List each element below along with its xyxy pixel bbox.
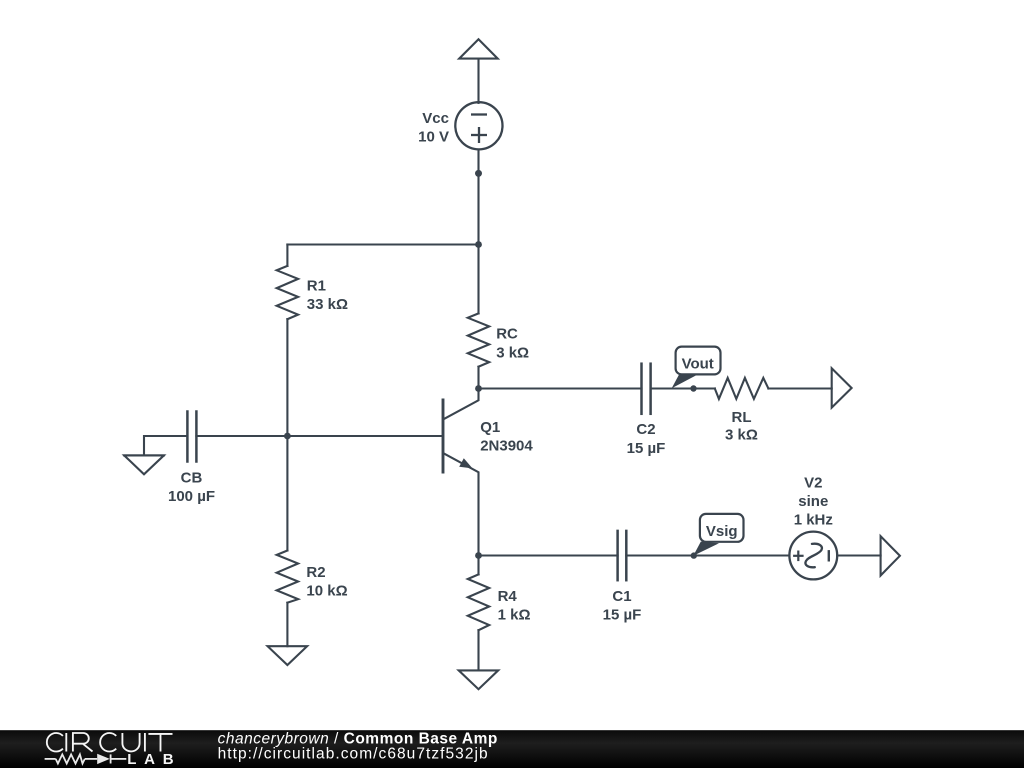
label R4 1 k (498, 588, 531, 623)
node dot Vout (690, 385, 696, 391)
svg-text:15 µF: 15 µF (627, 440, 666, 457)
wire base row (196, 435, 443, 437)
ground R2 (268, 646, 308, 665)
wire CB to ground (144, 436, 187, 455)
svg-text:100 µF: 100 µF (168, 488, 215, 505)
capacitor C1 (618, 531, 627, 580)
resistor R4 (468, 556, 489, 671)
ground CB (124, 455, 164, 474)
transistor Q1 (443, 389, 479, 556)
svg-text:10 kΩ: 10 kΩ (306, 582, 347, 599)
svg-text:33 kΩ: 33 kΩ (307, 296, 348, 313)
svg-text:Q1: Q1 (480, 419, 500, 436)
svg-text:1 kHz: 1 kHz (794, 512, 833, 529)
output port triangle Vout (832, 368, 852, 407)
wire after C1 (626, 554, 789, 556)
ground R4 (459, 670, 499, 689)
svg-text:http://circuitlab.com/c68u7tzf: http://circuitlab.com/c68u7tzf532jb (218, 745, 489, 762)
svg-text:RC: RC (496, 325, 518, 342)
svg-text:3 kΩ: 3 kΩ (725, 426, 758, 443)
junction collector node (475, 385, 482, 392)
logo CIRCUIT (47, 733, 173, 752)
voltage source V2 sine (789, 532, 837, 580)
output port triangle Vsig (881, 536, 900, 575)
footer center text (218, 731, 498, 763)
label R2 10 k (306, 564, 347, 599)
svg-text:1 kΩ: 1 kΩ (498, 606, 531, 623)
junction emitter node (475, 552, 482, 559)
label C1 15 uF (603, 588, 642, 623)
svg-text:Vcc: Vcc (422, 110, 449, 127)
wire Vcc to rail (477, 150, 479, 245)
label C2 15 uF (627, 421, 666, 457)
label R1 33 k (307, 278, 348, 313)
junction base node (284, 433, 291, 440)
node dot Vcc net (475, 170, 482, 177)
resistor R2 (277, 436, 298, 646)
svg-text:CB: CB (181, 470, 203, 487)
logo mini schematic (45, 754, 127, 764)
svg-text:Vout: Vout (682, 355, 714, 372)
flag Vout (672, 347, 721, 389)
label Vcc 10 V (418, 110, 449, 146)
resistor R1 (277, 245, 298, 437)
wire collector row (479, 387, 642, 389)
resistor RC (468, 245, 489, 389)
svg-text:3 kΩ: 3 kΩ (496, 344, 529, 361)
label Q1 2N3904 (480, 419, 533, 455)
label V2 sine 1 kHz (794, 475, 833, 529)
footer bar (0, 730, 1024, 768)
svg-text:sine: sine (798, 493, 828, 510)
resistor RL (715, 378, 832, 399)
label RC 3 k (496, 325, 529, 361)
node dot Vsig (691, 552, 697, 558)
svg-text:C1: C1 (612, 588, 631, 605)
capacitor C2 (642, 364, 651, 414)
svg-text:R4: R4 (498, 588, 518, 605)
svg-text:R2: R2 (306, 564, 325, 581)
label RL 3 k (725, 409, 758, 443)
wire V2 to port (837, 554, 880, 556)
label CB 100 uF (168, 470, 215, 506)
svg-text:Vsig: Vsig (706, 523, 738, 540)
flag Vsig (693, 514, 743, 556)
capacitor CB (187, 412, 196, 462)
wire after C2 (651, 387, 715, 389)
svg-text:R1: R1 (307, 278, 326, 295)
svg-text:10 V: 10 V (418, 129, 449, 146)
voltage source Vcc 10 V (455, 102, 502, 149)
svg-text:2N3904: 2N3904 (480, 438, 533, 455)
svg-text:15 µF: 15 µF (603, 606, 642, 623)
junction (475, 241, 482, 248)
wire emitter row (479, 554, 618, 556)
svg-text:RL: RL (732, 409, 752, 426)
svg-text:LAB: LAB (127, 751, 181, 768)
wire top rail (287, 243, 478, 245)
wire Vcc stem (477, 59, 479, 103)
svg-text:V2: V2 (804, 475, 822, 492)
svg-text:C2: C2 (636, 421, 655, 438)
power flag Vcc net (459, 39, 498, 58)
